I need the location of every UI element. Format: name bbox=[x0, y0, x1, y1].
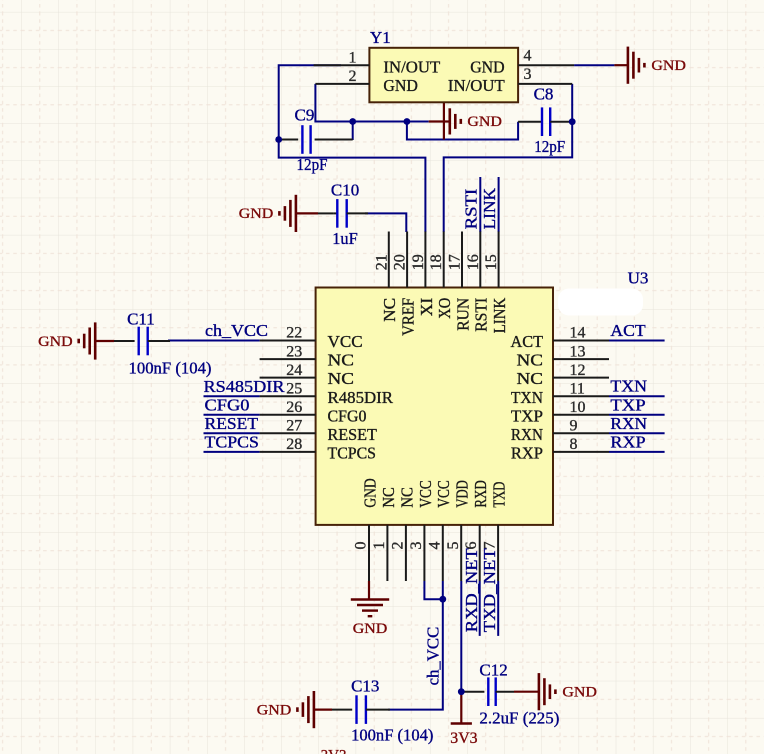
svg-text:2: 2 bbox=[349, 68, 357, 85]
svg-text:RXN: RXN bbox=[610, 414, 647, 433]
svg-text:NC: NC bbox=[397, 487, 416, 508]
svg-text:C10: C10 bbox=[331, 180, 359, 199]
svg-text:3V3: 3V3 bbox=[321, 748, 347, 754]
svg-text:TXD_NET: TXD_NET bbox=[480, 548, 499, 633]
svg-text:5: 5 bbox=[445, 542, 462, 550]
svg-text:TXP: TXP bbox=[610, 395, 645, 414]
svg-text:2: 2 bbox=[389, 542, 406, 550]
svg-text:3V3: 3V3 bbox=[450, 730, 477, 747]
svg-text:17: 17 bbox=[447, 254, 464, 270]
svg-text:ch_VCC: ch_VCC bbox=[205, 321, 268, 340]
svg-text:RSTI: RSTI bbox=[472, 297, 491, 331]
svg-text:RESET: RESET bbox=[205, 414, 259, 433]
svg-text:12: 12 bbox=[570, 362, 586, 379]
svg-text:C11: C11 bbox=[127, 310, 155, 329]
svg-text:NC: NC bbox=[328, 351, 355, 370]
svg-text:LINK: LINK bbox=[490, 297, 509, 333]
svg-text:GND: GND bbox=[257, 702, 292, 718]
svg-text:4: 4 bbox=[524, 47, 532, 64]
svg-text:RS485DIR: RS485DIR bbox=[204, 377, 286, 396]
svg-text:Y1: Y1 bbox=[370, 28, 391, 47]
svg-text:TXN: TXN bbox=[511, 388, 543, 407]
svg-text:25: 25 bbox=[286, 380, 302, 397]
svg-text:VCC: VCC bbox=[434, 480, 453, 507]
svg-text:NC: NC bbox=[517, 351, 544, 370]
svg-text:RUN: RUN bbox=[453, 298, 472, 331]
svg-text:ACT: ACT bbox=[610, 321, 646, 340]
svg-text:GND: GND bbox=[470, 57, 505, 76]
svg-text:4: 4 bbox=[426, 542, 443, 550]
svg-text:1: 1 bbox=[371, 542, 388, 550]
svg-text:R485DIR: R485DIR bbox=[328, 388, 394, 407]
svg-text:NC: NC bbox=[380, 298, 399, 322]
svg-text:CFG0: CFG0 bbox=[205, 395, 250, 414]
svg-text:CFG0: CFG0 bbox=[328, 406, 367, 425]
svg-text:RXD_NET: RXD_NET bbox=[462, 548, 481, 633]
svg-text:NC: NC bbox=[379, 487, 398, 508]
svg-text:TXD: TXD bbox=[490, 482, 509, 508]
svg-text:28: 28 bbox=[286, 436, 302, 453]
svg-text:VREF: VREF bbox=[399, 298, 418, 336]
svg-text:VDD: VDD bbox=[453, 480, 472, 507]
svg-text:TXN: TXN bbox=[610, 377, 647, 396]
svg-text:3: 3 bbox=[408, 542, 425, 550]
svg-text:TCPCS: TCPCS bbox=[205, 433, 259, 452]
svg-text:16: 16 bbox=[465, 254, 482, 270]
svg-text:26: 26 bbox=[286, 399, 302, 416]
svg-text:23: 23 bbox=[286, 343, 302, 360]
svg-text:GND: GND bbox=[562, 685, 597, 701]
svg-text:NC: NC bbox=[328, 369, 355, 388]
svg-text:12pF: 12pF bbox=[534, 137, 565, 156]
svg-text:0: 0 bbox=[353, 542, 370, 550]
svg-text:XI: XI bbox=[417, 297, 436, 316]
svg-text:GND: GND bbox=[353, 621, 388, 637]
svg-text:ch_VCC: ch_VCC bbox=[424, 627, 443, 686]
svg-text:1uF: 1uF bbox=[332, 229, 358, 248]
svg-text:24: 24 bbox=[286, 362, 302, 379]
svg-text:RXP: RXP bbox=[511, 444, 543, 463]
svg-text:27: 27 bbox=[286, 418, 302, 435]
svg-text:10: 10 bbox=[570, 399, 586, 416]
svg-text:9: 9 bbox=[570, 418, 578, 435]
svg-text:RXN: RXN bbox=[511, 425, 543, 444]
svg-text:U3: U3 bbox=[628, 269, 649, 288]
svg-text:GND: GND bbox=[467, 114, 502, 130]
svg-text:TCPCS: TCPCS bbox=[328, 444, 377, 463]
svg-text:18: 18 bbox=[428, 254, 445, 270]
svg-text:XO: XO bbox=[435, 298, 454, 319]
svg-text:GND: GND bbox=[383, 76, 418, 95]
svg-text:IN/OUT: IN/OUT bbox=[448, 76, 505, 95]
svg-text:NC: NC bbox=[517, 369, 544, 388]
svg-text:12pF: 12pF bbox=[297, 155, 328, 174]
svg-text:8: 8 bbox=[570, 436, 578, 453]
svg-text:VCC: VCC bbox=[328, 332, 363, 351]
svg-text:14: 14 bbox=[570, 325, 586, 342]
svg-text:GND: GND bbox=[239, 206, 274, 222]
svg-text:RXD: RXD bbox=[471, 480, 490, 507]
svg-text:GND: GND bbox=[38, 334, 73, 350]
svg-text:RSTI: RSTI bbox=[462, 188, 481, 229]
svg-text:VCC: VCC bbox=[416, 480, 435, 507]
svg-text:GND: GND bbox=[360, 478, 379, 507]
svg-text:1: 1 bbox=[349, 49, 357, 66]
svg-text:C9: C9 bbox=[295, 106, 315, 125]
svg-text:LINK: LINK bbox=[480, 187, 499, 229]
svg-text:100nF (104): 100nF (104) bbox=[129, 359, 212, 378]
svg-text:20: 20 bbox=[392, 254, 409, 270]
svg-text:GND: GND bbox=[651, 58, 686, 74]
svg-text:11: 11 bbox=[570, 380, 585, 397]
svg-text:2.2uF (225): 2.2uF (225) bbox=[479, 709, 559, 728]
svg-text:RESET: RESET bbox=[328, 425, 378, 444]
svg-text:RXP: RXP bbox=[610, 432, 645, 451]
svg-text:ACT: ACT bbox=[511, 332, 544, 351]
svg-text:21: 21 bbox=[373, 254, 390, 270]
svg-text:15: 15 bbox=[483, 254, 500, 270]
svg-text:IN/OUT: IN/OUT bbox=[383, 57, 440, 76]
svg-text:C13: C13 bbox=[351, 677, 379, 696]
svg-text:19: 19 bbox=[410, 254, 427, 270]
svg-text:C8: C8 bbox=[534, 85, 554, 104]
svg-text:13: 13 bbox=[570, 343, 586, 360]
svg-text:3: 3 bbox=[524, 66, 532, 83]
svg-text:100nF (104): 100nF (104) bbox=[351, 726, 433, 745]
svg-text:22: 22 bbox=[286, 325, 302, 342]
svg-text:C12: C12 bbox=[479, 661, 507, 680]
svg-text:TXP: TXP bbox=[511, 406, 543, 425]
